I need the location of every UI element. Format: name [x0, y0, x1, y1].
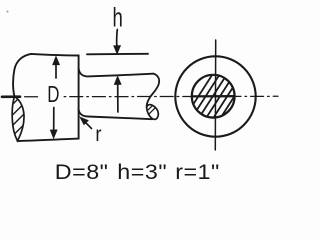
svg-text:r=1": r=1" [175, 160, 220, 184]
end view outer circle (diameter D) [175, 56, 255, 136]
dimension h upper arrow (pointing down) [116, 30, 119, 48]
core hatching [180, 72, 264, 125]
dimension D upper arrow (pointing up) [55, 65, 57, 79]
shaft large-end outline (top edge, shoulder face, bottom edge) [17, 54, 78, 141]
loop hatching [130, 91, 172, 128]
svg-text:D=8": D=8" [55, 160, 109, 184]
centerline (horizontal dash-dot axis) [2, 95, 278, 98]
svg-text:D: D [47, 81, 59, 107]
dimension h lower arrow (pointing up) [117, 85, 119, 113]
right break loop (hatched) [147, 105, 159, 120]
centerline thick dash across core [193, 95, 234, 98]
end view core circle (diameter of small shaft) [192, 75, 235, 118]
dimension D lower arrow (pointing down) [53, 108, 55, 131]
svg-text:r: r [95, 123, 101, 147]
small shaft bottom edge with fillet r [79, 110, 153, 120]
centerline gap behind D [40, 92, 63, 102]
right break S-curve [147, 74, 160, 108]
end view vertical centerline [214, 40, 216, 150]
extension line for h (top of large diameter level) [87, 53, 148, 56]
leader line for r [85, 122, 92, 129]
svg-text:h: h [112, 2, 122, 32]
svg-text:h=3": h=3" [117, 160, 167, 184]
small shaft top edge with fillet [79, 69, 154, 77]
leader arrowhead at fillet [80, 117, 88, 124]
lens hatching [0, 0, 149, 149]
break line (left S-curve edge) [13, 54, 31, 97]
scan speck top-left [7, 11, 9, 13]
break lens (hatched teardrop) [12, 97, 24, 141]
centerline thick start dash [2, 95, 20, 98]
